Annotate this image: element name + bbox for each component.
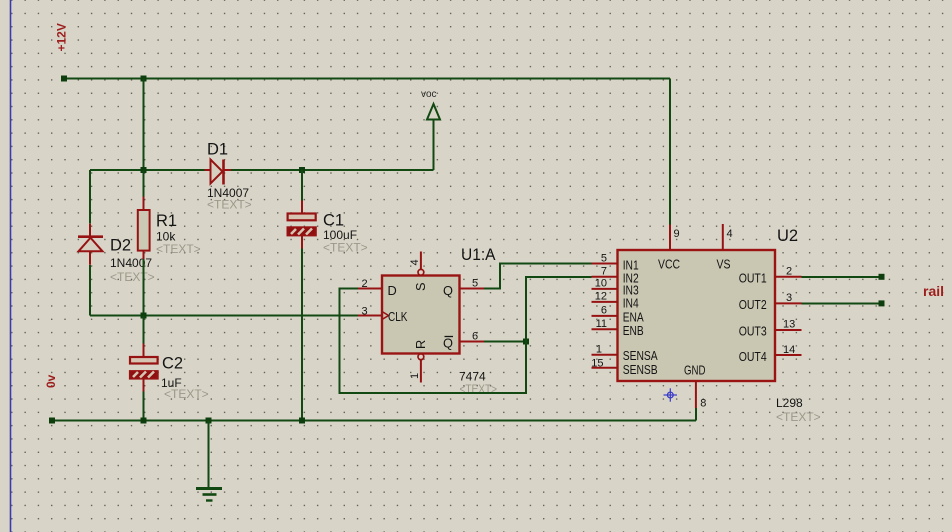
pin name SENSA — [623, 348, 658, 363]
svg-text:7: 7 — [601, 265, 607, 277]
terminal square 0v — [49, 418, 55, 424]
label TEXT (C1) — [323, 241, 368, 255]
pin name IN2 — [623, 270, 639, 285]
capacitor C2 — [130, 344, 158, 392]
wire C2 bottom to ground rail — [143, 392, 145, 421]
svg-text:+12V: +12V — [55, 23, 69, 51]
pin name OUT4 — [739, 349, 767, 364]
pin number 15 (SENSB) — [591, 357, 603, 369]
label C1 — [323, 212, 344, 230]
wire CLK net horizontal — [90, 315, 358, 317]
wire vcc drop to U2 pin 9 — [669, 79, 671, 225]
svg-text:ENB: ENB — [623, 323, 644, 338]
svg-text:SENSB: SENSB — [623, 362, 658, 377]
pin number 4 — [727, 228, 733, 240]
pin SENSA stub — [592, 354, 618, 356]
label 7474 — [459, 370, 486, 384]
pin ENB stub — [592, 328, 618, 330]
svg-text:14: 14 — [783, 344, 795, 356]
ground — [196, 421, 222, 501]
svg-text:C2: C2 — [162, 354, 183, 372]
svg-text:3: 3 — [786, 292, 792, 304]
label L298 — [776, 396, 803, 410]
svg-text:VS: VS — [717, 257, 731, 272]
pin name OUT1 — [739, 270, 767, 285]
svg-text:1N4007: 1N4007 — [110, 256, 152, 270]
pin number 1 (rotated) — [409, 373, 421, 379]
pin name Qbar — [443, 336, 453, 351]
wire C2 top net — [143, 316, 145, 344]
pin OUT4 stub — [775, 354, 802, 356]
label 1uF — [161, 376, 182, 390]
wire top +12V rail — [64, 78, 670, 80]
label voc — [421, 89, 437, 100]
pin name D — [388, 283, 397, 298]
diode D2 — [78, 224, 103, 265]
diode D1 — [205, 160, 232, 185]
pin number 5 (IN1) — [601, 253, 607, 265]
wire C1 top net — [301, 170, 303, 201]
svg-text:<TEXT>: <TEXT> — [164, 387, 209, 401]
wire from top rail down to node at y=170 — [143, 79, 145, 171]
op-amp U1 box (7474 flip-flop U1:A) — [382, 276, 460, 354]
svg-text:OUT1: OUT1 — [739, 270, 767, 285]
node junction at (143.5,78.5) — [141, 76, 147, 82]
pin VCC stub (9) — [669, 225, 671, 251]
node junction at (302,170) — [299, 167, 305, 173]
svg-text:S: S — [413, 282, 428, 291]
svg-text:11: 11 — [596, 318, 607, 330]
pin number 3 — [362, 306, 368, 318]
svg-text:9: 9 — [674, 228, 680, 240]
node junction at (143.5,420.5) — [141, 418, 147, 424]
svg-text:2: 2 — [786, 266, 792, 278]
svg-text:VCC: VCC — [658, 257, 680, 272]
svg-text:15: 15 — [591, 357, 603, 369]
svg-text:12: 12 — [595, 291, 607, 303]
wire R1 bottom to CLK net — [143, 259, 145, 316]
pin number 7 (IN2) — [601, 265, 607, 277]
svg-text:IN4: IN4 — [623, 296, 639, 311]
pin name R (rotated) — [413, 340, 428, 349]
pin number 3 (OUT2) — [786, 292, 792, 304]
label rail — [923, 283, 944, 299]
label 0v — [44, 374, 58, 388]
pin number 6 — [472, 331, 478, 343]
label TEXT (R1) — [156, 242, 201, 256]
pin number 2 — [362, 278, 368, 290]
origin marker (blue crosshair) — [664, 388, 678, 401]
wire horizontal y=170 right of D1 to voc corner — [231, 169, 434, 171]
svg-text:<TEXT>: <TEXT> — [207, 198, 252, 212]
svg-text:6: 6 — [601, 305, 607, 317]
pin GND stub (8) — [695, 381, 697, 408]
wire D2 anode down to CLK net — [89, 265, 91, 316]
pin name OUT3 — [739, 324, 767, 339]
svg-text:GND: GND — [684, 363, 706, 378]
svg-text:Q: Q — [443, 336, 453, 351]
label TEXT (C2) — [164, 387, 209, 401]
pin name ENB — [623, 323, 644, 338]
svg-text:D: D — [388, 283, 397, 298]
pin name VCC — [658, 257, 680, 272]
pin OUT3 stub — [775, 329, 802, 331]
pin number 10 (IN3) — [595, 278, 607, 290]
label U1:A — [461, 246, 496, 264]
pin name S (rotated) — [413, 282, 428, 291]
node junction at (208.5,420.5) — [206, 418, 212, 424]
pin Q stub — [460, 288, 485, 290]
power terminal voc arrow — [427, 104, 440, 170]
svg-text:4: 4 — [409, 259, 421, 265]
wire horizontal y=170 left of D1 — [90, 169, 205, 171]
svg-text:CLK: CLK — [388, 309, 408, 324]
pin number 1 (SENSA) — [596, 344, 602, 356]
svg-text:D2: D2 — [110, 237, 131, 255]
sheet border (blue) — [10, 0, 12, 532]
label TEXT (U1) — [460, 382, 498, 396]
pin IN3 stub — [592, 288, 618, 290]
label 100uF — [323, 228, 357, 242]
svg-text:L298: L298 — [776, 396, 803, 410]
label 10k — [156, 230, 176, 244]
pin CLK stub — [358, 312, 389, 320]
pin name OUT2 — [739, 297, 767, 312]
pin name SENSB — [623, 362, 658, 377]
svg-text:1: 1 — [409, 373, 421, 379]
svg-text:OUT4: OUT4 — [739, 349, 767, 364]
pin number 9 — [674, 228, 680, 240]
wire feedback Qbar to D — [340, 289, 527, 394]
pin name ENA — [623, 310, 644, 325]
wire GND pin to rail — [695, 408, 697, 421]
resistor R1 — [138, 197, 150, 260]
svg-text:3: 3 — [362, 306, 368, 318]
pin Qbar stub — [460, 341, 485, 343]
svg-text:rail: rail — [923, 283, 944, 299]
svg-text:5: 5 — [601, 253, 607, 265]
pin number 14 (OUT4) — [783, 344, 795, 356]
pin D stub — [358, 288, 382, 290]
pin ENA stub — [592, 315, 618, 317]
label D1 — [207, 141, 228, 159]
pin number 4 (rotated) — [409, 259, 421, 265]
pin number 6 (ENA) — [601, 305, 607, 317]
svg-text:<TEXT>: <TEXT> — [156, 242, 201, 256]
svg-text:U2: U2 — [777, 227, 798, 245]
pin SENSB stub — [592, 367, 618, 369]
wire OUT2 to rail terminal — [802, 300, 885, 306]
svg-text:C1: C1 — [323, 212, 344, 230]
pin name VS — [717, 257, 731, 272]
label U2 — [777, 227, 798, 245]
IC U2 box (L298) — [618, 250, 776, 381]
capacitor C1 — [288, 201, 316, 249]
pin VS stub (4) — [722, 224, 724, 250]
pin OUT1 stub — [775, 276, 802, 278]
pin number 13 (OUT3) — [783, 319, 795, 331]
svg-text:13: 13 — [783, 319, 795, 331]
svg-text:R: R — [413, 340, 428, 349]
svg-text:R1: R1 — [156, 212, 177, 230]
wire Q to IN1 — [484, 264, 592, 289]
pin IN1 stub — [592, 263, 618, 265]
node junction at (526,341.5) — [523, 339, 529, 345]
label D2 — [110, 237, 131, 255]
svg-text:1: 1 — [596, 344, 602, 356]
pin IN2 stub — [592, 276, 618, 278]
pin name GND — [684, 363, 706, 378]
pin OUT2 stub — [775, 302, 802, 304]
svg-text:<TEXT>: <TEXT> — [323, 241, 368, 255]
svg-text:OUT2: OUT2 — [739, 297, 767, 312]
pin name CLK — [388, 309, 408, 324]
label 1N4007 (D2) — [110, 256, 152, 270]
node junction at (302,420.5) — [299, 418, 305, 424]
svg-text:2: 2 — [362, 278, 368, 290]
pin name IN4 — [623, 296, 639, 311]
svg-text:0v: 0v — [44, 374, 58, 388]
svg-text:5: 5 — [472, 278, 478, 290]
label TEXT (D1) — [207, 198, 252, 212]
wire bottom 0v rail — [52, 420, 696, 422]
wire from (90,170) down to D2 — [89, 170, 91, 224]
label +12V — [55, 23, 69, 51]
svg-text:D1: D1 — [207, 141, 228, 159]
svg-text:10: 10 — [595, 278, 607, 290]
pin S stub with bubble — [418, 252, 424, 276]
terminal square +12V — [61, 76, 67, 82]
wire OUT1 to rail terminal — [802, 274, 885, 280]
label TEXT (D2) — [110, 270, 155, 284]
label C2 — [162, 354, 183, 372]
label R1 — [156, 212, 177, 230]
svg-text:voc: voc — [421, 89, 437, 100]
svg-text:U1:A: U1:A — [461, 246, 496, 264]
label 1N4007 (D1) — [207, 186, 249, 200]
svg-text:<TEXT>: <TEXT> — [110, 270, 155, 284]
pin name IN3 — [623, 283, 639, 298]
svg-text:6: 6 — [472, 331, 478, 343]
pin number 5 — [472, 278, 478, 290]
svg-text:Q: Q — [443, 283, 453, 298]
svg-text:<TEXT>: <TEXT> — [776, 410, 821, 424]
pin name Q — [443, 283, 453, 298]
svg-text:8: 8 — [700, 398, 706, 410]
pin IN4 stub — [592, 301, 618, 303]
pin number 8 — [700, 398, 706, 410]
pin number 11 (ENB) — [596, 318, 607, 330]
pin number 12 (IN4) — [595, 291, 607, 303]
node junction at (143.5,315.5) — [141, 313, 147, 319]
pin R stub with bubble — [418, 354, 424, 383]
wire C1 bottom to ground rail — [301, 249, 303, 421]
pin number 2 (OUT1) — [786, 266, 792, 278]
pin name IN1 — [623, 257, 639, 272]
svg-text:4: 4 — [727, 228, 733, 240]
wire IN2 to junction — [526, 277, 592, 342]
label TEXT (U2) — [776, 410, 821, 424]
wire R1 top lead net — [143, 170, 145, 197]
wire Qbar to junction — [484, 341, 526, 343]
svg-text:OUT3: OUT3 — [739, 324, 767, 339]
node junction at (143.5,170) — [141, 167, 147, 173]
